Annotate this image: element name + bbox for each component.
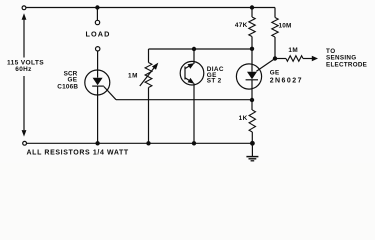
wire 10M bottom lead [274, 37, 276, 59]
wire pot/diac/PUT anode rail [149, 48, 253, 50]
wire LOAD to SCR anode [97, 51, 99, 70]
svg-text:1K: 1K [239, 115, 248, 122]
diac ST2 circle [180, 61, 204, 85]
svg-text:C106B: C106B [57, 84, 78, 91]
node ground junction [250, 141, 255, 146]
node gate junction [273, 56, 277, 60]
resistor 47K [249, 17, 255, 37]
potentiometer arrow [140, 66, 156, 86]
wire LOAD tap upper [96, 8, 98, 21]
wire diac top lead [193, 49, 195, 64]
wire 10M top lead [274, 8, 276, 18]
wire diac bottom lead [193, 83, 195, 143]
wire PUT anode lead [251, 49, 253, 72]
wire top rail [26, 7, 275, 9]
node diac bottom junction [192, 141, 196, 145]
wire bottom rail [27, 142, 253, 144]
node PUT anode junction [250, 47, 254, 51]
svg-text:GE: GE [67, 77, 77, 84]
PUT cathode bar [246, 79, 258, 81]
node 47K top junction [250, 5, 254, 9]
SCR C106B circle [85, 70, 110, 95]
node LOAD tap junction [95, 5, 99, 9]
PUT gate lead [256, 59, 275, 72]
wire 1M to arrow [303, 58, 312, 60]
svg-text:2N6027: 2N6027 [270, 77, 303, 84]
PUT 2N6027 circle [236, 64, 261, 89]
arrow to sensing electrode [312, 56, 318, 62]
svg-text:47K: 47K [235, 22, 248, 29]
terminal LOAD upper [95, 20, 99, 24]
svg-text:60Hz: 60Hz [15, 66, 32, 73]
wire source line lower [23, 76, 25, 130]
svg-text:ELECTRODE: ELECTRODE [326, 62, 367, 69]
potentiometer 1M zigzag [145, 63, 152, 88]
svg-text:LOAD: LOAD [85, 29, 110, 38]
source arrow up [22, 13, 27, 20]
wire 1K top lead [251, 100, 253, 110]
terminal LOAD lower [96, 47, 100, 51]
terminal top-left [22, 6, 26, 10]
wire PUT cathode [251, 80, 253, 100]
node SCR cathode junction [95, 141, 99, 145]
wire source line upper [23, 19, 25, 58]
wire pot bottom lead [148, 88, 150, 144]
svg-text:SENSING: SENSING [326, 55, 356, 62]
svg-text:GE: GE [270, 70, 280, 77]
SCR anode line [97, 70, 99, 78]
resistor 1K [249, 110, 255, 132]
resistor 1M horizontal [286, 56, 303, 62]
wire 47K top lead [251, 8, 253, 18]
source arrow down [22, 130, 27, 137]
svg-text:ST 2: ST 2 [207, 78, 222, 85]
PUT triangle [247, 72, 257, 80]
diac lower diagonal with arrow [185, 78, 192, 82]
svg-text:10M: 10M [279, 23, 292, 30]
wire gate to 1M [275, 58, 286, 60]
SCR cathode bar [92, 85, 104, 87]
terminal bottom-left [23, 141, 27, 145]
svg-text:1M: 1M [288, 47, 298, 54]
wire SCR gate to PUT cathode [116, 99, 252, 101]
node PUT cathode / 1K junction [250, 98, 254, 102]
node diac top junction [192, 47, 196, 51]
diac bar [184, 67, 186, 80]
svg-text:ALL RESISTORS 1/4 WATT: ALL RESISTORS 1/4 WATT [27, 150, 129, 157]
resistor 10M [272, 18, 278, 38]
wire SCR cathode [97, 86, 99, 143]
svg-text:1M: 1M [128, 73, 138, 80]
SCR gate lead [104, 87, 116, 100]
diac upper diagonal with arrow [185, 65, 192, 69]
wire 1K bottom lead [251, 132, 253, 143]
wire pot top lead [148, 49, 150, 63]
SCR triangle [93, 78, 103, 86]
node pot bottom junction [146, 141, 150, 145]
ground [246, 143, 258, 161]
wire 47K bottom lead [251, 37, 253, 49]
